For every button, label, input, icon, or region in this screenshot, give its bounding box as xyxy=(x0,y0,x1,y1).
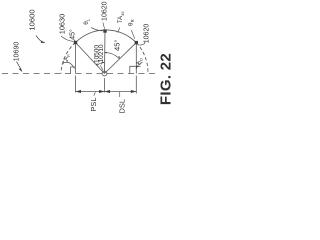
svg-text:FIG. 22: FIG. 22 xyxy=(157,53,174,105)
svg-text:10620: 10620 xyxy=(101,1,108,21)
svg-text:θL: θL xyxy=(83,18,90,25)
svg-text:DSL: DSL xyxy=(117,99,126,114)
svg-text:45°: 45° xyxy=(69,29,77,40)
svg-text:45°: 45° xyxy=(112,40,121,51)
svg-text:TA45: TA45 xyxy=(117,11,124,24)
svg-text:10630: 10630 xyxy=(57,14,66,35)
svg-text:TAP: TAP xyxy=(64,54,71,64)
svg-text:10620: 10620 xyxy=(144,24,151,44)
svg-text:-10210: -10210 xyxy=(98,44,105,65)
svg-text:10600: 10600 xyxy=(28,9,37,30)
svg-text:TAD: TAD xyxy=(137,58,144,68)
svg-text:θR: θR xyxy=(128,19,135,26)
svg-text:PSL: PSL xyxy=(89,97,98,111)
svg-text:10690: 10690 xyxy=(13,42,20,62)
